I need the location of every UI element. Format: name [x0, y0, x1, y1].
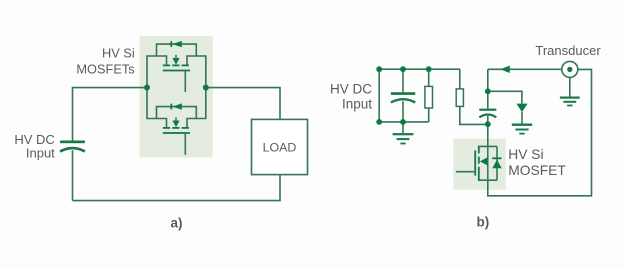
- Q1 gate bar: [163, 70, 190, 72]
- svg-text:Transducer: Transducer: [535, 43, 601, 58]
- MOSFET Q2 (bottom, circuit a): [147, 87, 206, 154]
- wire drain column lower (b): [487, 116, 489, 147]
- ground G2 stem: [521, 112, 523, 124]
- MOSFET Q3 (circuit b): [474, 146, 501, 180]
- Q2 channel bar body: [172, 127, 179, 129]
- Q3 body diode triangle: [492, 160, 501, 169]
- wire left rail top (a): [73, 88, 148, 141]
- shaded region circuit b: [453, 139, 505, 190]
- node dot b4: [376, 119, 382, 125]
- Q3 channel bar drain: [478, 146, 480, 153]
- capacitor C3 curved plate: [479, 114, 496, 117]
- Q1 body diode triangle: [172, 41, 181, 47]
- resistor R2: [456, 89, 463, 107]
- Q2 right leg: [187, 87, 206, 127]
- svg-text:MOSFET: MOSFET: [508, 163, 566, 178]
- wire bottom rail (b): [379, 121, 429, 123]
- resistor R1: [425, 86, 433, 108]
- svg-text:MOSFETs: MOSFETs: [76, 62, 134, 77]
- node dot b3: [426, 66, 432, 72]
- wire drain column upper (b): [487, 69, 489, 108]
- Q1 body arrow: [172, 58, 179, 65]
- Q3 body arrow: [480, 157, 488, 165]
- Q2 gate bar: [163, 132, 190, 134]
- transducer center dot: [567, 67, 572, 72]
- Q1 body diode cathode bar: [170, 41, 172, 47]
- Q1 gate lead: [184, 71, 186, 92]
- Q3 body diode loop: [496, 146, 498, 180]
- svg-text:Input: Input: [342, 96, 372, 111]
- shaded region circuit a: [140, 36, 213, 157]
- Q3 channel bar body: [478, 157, 480, 164]
- Q3 gate bar: [474, 150, 476, 175]
- capacitor C2 curved plate: [391, 99, 415, 102]
- ground G3 bars (transducer): [560, 97, 580, 107]
- wire transducer line: [488, 68, 562, 70]
- Q2 channel bar source: [182, 127, 189, 129]
- Q3 channel bar source: [478, 167, 480, 180]
- svg-text:HV Si: HV Si: [102, 46, 135, 61]
- resistor R2 bottom lead wire: [460, 106, 488, 124]
- capacitor C1 top plate: [60, 141, 85, 144]
- node dot b5: [400, 119, 406, 125]
- Q2 body diode loop: [157, 107, 197, 119]
- Q2 body diode triangle: [172, 103, 181, 109]
- ground G3 stem (transducer): [569, 78, 571, 97]
- node dot b1: [376, 66, 382, 72]
- node dot left (a): [144, 85, 150, 91]
- Q2 body diode cathode bar: [170, 104, 172, 110]
- capacitor C2 top lead: [402, 69, 404, 92]
- Q3 body diode cathode bar: [492, 157, 501, 159]
- wire right to LOAD (a): [206, 88, 280, 120]
- ground G2 bars: [512, 124, 532, 135]
- Q2 left leg: [147, 87, 167, 127]
- Q3 drain bar: [478, 145, 497, 147]
- ground G1 stem: [402, 122, 404, 133]
- Q1 channel bar drain: [163, 65, 170, 67]
- diode D1 triangle: [516, 104, 527, 113]
- Q2 gate lead: [184, 134, 186, 155]
- svg-text:LOAD: LOAD: [263, 140, 297, 154]
- Q2 body arrow: [172, 121, 179, 128]
- capacitor C2 bottom lead: [402, 101, 404, 122]
- MOSFET Q3 gate wire: [456, 171, 474, 173]
- Q2 channel bar drain: [163, 127, 170, 129]
- svg-text:HV DC: HV DC: [330, 81, 372, 96]
- ground G1 bars: [393, 133, 414, 144]
- LOAD box: [252, 119, 308, 174]
- Q1 left leg: [147, 56, 167, 87]
- MOSFET Q1 (top, circuit a): [147, 41, 206, 92]
- Q3 internal vertical: [487, 146, 489, 180]
- wire diode branch: [488, 91, 522, 103]
- svg-text:HV Si: HV Si: [508, 147, 543, 162]
- node dot b6: [485, 88, 491, 94]
- wire left column (b): [378, 69, 380, 122]
- Q1 right leg: [187, 56, 206, 87]
- Q2 body arrow shaft: [175, 117, 177, 121]
- node dot b7: [485, 121, 491, 127]
- Q1 body arrow shaft: [175, 55, 177, 59]
- Q1 channel bar body: [172, 65, 179, 67]
- transducer circle: [562, 61, 578, 77]
- node dot b2: [400, 66, 406, 72]
- arrow on transducer wire: [500, 66, 510, 73]
- svg-text:Input: Input: [26, 145, 55, 160]
- wire top rail (b): [379, 68, 460, 70]
- wire left rail bottom (a): [72, 150, 74, 200]
- capacitor C1 curved plate: [60, 148, 85, 151]
- Q1 channel bar source: [182, 65, 189, 67]
- resistor R1 top lead: [428, 69, 430, 86]
- resistor R2 top lead: [459, 69, 461, 89]
- wire bottom rail (a): [73, 175, 281, 201]
- Q3 source bar: [478, 179, 497, 181]
- svg-text:a): a): [171, 216, 183, 231]
- node dot right (a): [203, 85, 209, 91]
- resistor R1 bottom lead: [428, 108, 430, 122]
- svg-text:b): b): [477, 215, 490, 230]
- Q1 body diode loop: [157, 44, 197, 56]
- capacitor C2 top plate: [391, 92, 415, 95]
- capacitor C3 top plate: [479, 109, 496, 111]
- wire transducer right: [488, 69, 592, 195]
